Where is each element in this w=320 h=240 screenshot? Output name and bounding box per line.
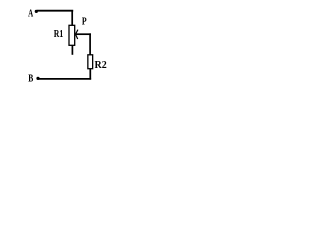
svg-text:B: B xyxy=(28,72,33,83)
svg-text:P: P xyxy=(82,16,87,27)
potentiometer wiper arrowhead into R1 xyxy=(76,30,78,39)
wire: bottom run from corner to node B xyxy=(39,78,92,80)
svg-text:R1: R1 xyxy=(54,28,64,39)
wire: node A to top-right corner xyxy=(37,10,73,12)
wire: R1 pin 2 dangling lead xyxy=(71,45,73,55)
wire: wiper to right corner xyxy=(76,33,92,35)
node B terminal dot xyxy=(36,77,39,80)
resistor R1 (potentiometer body) xyxy=(69,25,75,45)
node A terminal dot xyxy=(35,10,38,13)
wire: R2 pin 2 down to bottom corner xyxy=(89,69,91,80)
wire: right corner down to R2 pin 1 xyxy=(89,33,91,55)
wire: top corner down to R1 pin 1 xyxy=(71,10,73,25)
resistor R2 xyxy=(88,55,93,69)
svg-text:A: A xyxy=(28,7,34,19)
svg-text:R2: R2 xyxy=(95,60,107,71)
